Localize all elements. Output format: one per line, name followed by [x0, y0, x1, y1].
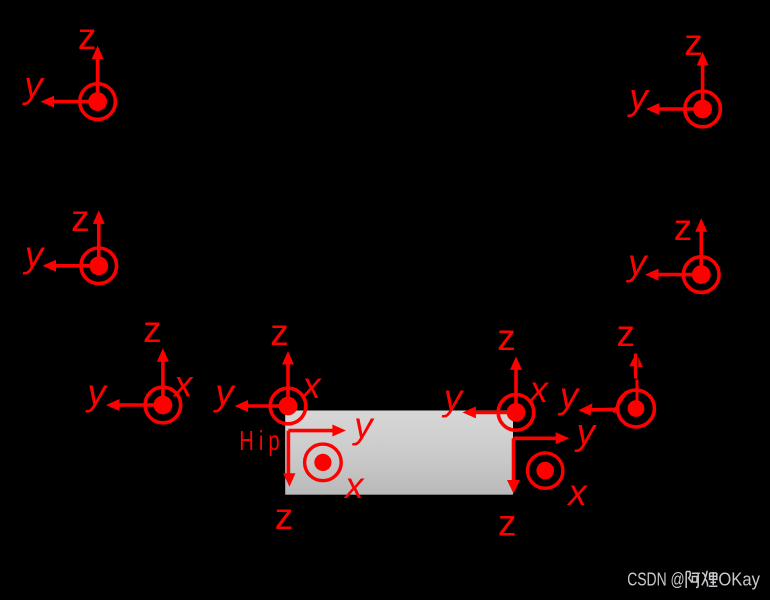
svg-text:z: z [497, 317, 516, 358]
svg-text:z: z [674, 207, 693, 248]
svg-text:z: z [684, 22, 703, 63]
svg-text:y: y [22, 234, 46, 275]
svg-text:x: x [527, 369, 549, 410]
svg-text:y: y [574, 412, 598, 453]
svg-text:y: y [557, 375, 581, 416]
F3-knee-left y-axis arrow [43, 260, 99, 272]
svg-text:z: z [498, 503, 517, 544]
F4-knee-right y-axis arrow [645, 269, 701, 281]
F4-knee-right z-axis arrow [695, 218, 707, 274]
F3-knee-left z-axis arrow [93, 210, 105, 265]
node F4-knee-right origin (x out of page) [683, 257, 719, 293]
svg-text:y: y [21, 65, 45, 106]
svg-text:Hip: Hip [239, 426, 284, 457]
svg-text:z: z [78, 16, 97, 57]
node F2-shoulder-right origin (x out of page) [685, 91, 721, 127]
svg-text:x: x [566, 472, 588, 513]
F5-hip-frame-1 z-axis arrow [157, 348, 169, 405]
Hip-L y-axis arrow (points right) [288, 425, 346, 437]
F1-shoulder-left y-axis arrow [41, 96, 98, 108]
node F5-hip-frame-1 origin (x out of page) [145, 387, 181, 423]
F8 z-axis broken arrow [629, 353, 643, 401]
F7-hip-frame-3 y-axis arrow [462, 406, 516, 418]
Hip-R x-axis out-of-page symbol [528, 453, 563, 488]
svg-text:y: y [84, 372, 108, 413]
F8 y-axis sketchy arrow [579, 403, 619, 415]
node F8-hip-frame-4 origin (sketchy, x out of page) [618, 390, 655, 427]
watermark glyph 阿 [686, 572, 700, 589]
F5-hip-frame-1 y-axis arrow [106, 399, 163, 411]
svg-text:y: y [625, 242, 649, 283]
svg-text:x: x [343, 465, 365, 506]
svg-text:y: y [441, 377, 465, 418]
svg-text:z: z [270, 312, 289, 353]
Hip-L x-axis out-of-page symbol [305, 444, 342, 481]
svg-text:z: z [143, 309, 162, 350]
body link rectangle [285, 411, 513, 495]
F6-hip-frame-2 z-axis arrow [282, 351, 294, 406]
svg-text:y: y [212, 372, 236, 413]
F6-hip-frame-2 y-axis arrow [235, 400, 288, 412]
node F6-hip-frame-2 origin (x out of page) [270, 388, 306, 424]
Hip-L z-axis arrow (points down) [283, 431, 296, 487]
svg-text:OKay: OKay [718, 570, 760, 590]
watermark glyph 狸 [702, 571, 718, 587]
svg-text:y: y [626, 77, 650, 118]
svg-text:z: z [275, 496, 294, 537]
svg-text:CSDN @: CSDN @ [627, 570, 685, 590]
Hip-R z-axis arrow (points down) [507, 438, 520, 493]
svg-text:x: x [172, 363, 194, 404]
F2-shoulder-right y-axis arrow [646, 103, 703, 115]
svg-text:z: z [616, 313, 635, 354]
F1-shoulder-left z-axis arrow [92, 46, 104, 102]
svg-text:y: y [351, 405, 375, 446]
node F1-shoulder-left origin (x out of page) [80, 84, 116, 120]
F2-shoulder-right z-axis arrow [697, 52, 709, 109]
F8 diagonal slash stroke [614, 392, 627, 413]
node F7-hip-frame-3 origin (x out of page) [498, 395, 534, 431]
Hip-R y-axis arrow (points right) [514, 432, 570, 444]
F7-hip-frame-3 z-axis arrow [510, 356, 522, 412]
svg-text:z: z [71, 198, 90, 239]
node F3-knee-left origin (x out of page) [81, 248, 117, 284]
svg-text:x: x [300, 365, 322, 406]
